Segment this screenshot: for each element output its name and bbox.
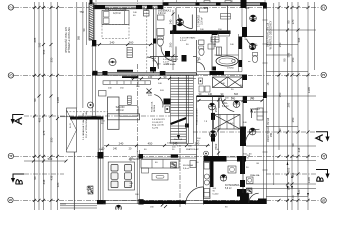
svg-text:2x90: 2x90 (143, 7, 149, 11)
dining west wall window (97, 120, 106, 205)
svg-text:438: 438 (297, 147, 301, 152)
svg-text:503: 503 (234, 93, 239, 96)
upper X-box void (213, 77, 243, 88)
east wall sill ticks (263, 20, 268, 170)
svg-text:h=270: h=270 (152, 127, 159, 129)
grid bubble 2 left (8, 5, 13, 10)
terrace edge (73, 152, 75, 210)
svg-text:PRALNIA: PRALNIA (250, 174, 260, 177)
svg-text:5: 5 (8, 198, 13, 201)
svg-text:120: 120 (245, 6, 250, 10)
corridor east wall (196, 8, 198, 72)
left dimension chain lines (35, 2, 58, 210)
left rotated note text (65, 27, 86, 53)
door living-stairs (152, 95, 165, 108)
hall west line (196, 96, 198, 156)
kitchen beam band (143, 155, 197, 159)
svg-text:260: 260 (169, 42, 173, 47)
shelf strip bedroom1 (127, 48, 132, 58)
svg-text:2,04 m²: 2,04 m² (158, 12, 166, 15)
svg-text:90: 90 (287, 20, 291, 24)
bath fixture on band (212, 32, 230, 37)
svg-text:17x18,2/27: 17x18,2/27 (152, 122, 164, 124)
terrace roof dashed line (66, 111, 108, 113)
svg-text:3: 3 (321, 73, 326, 76)
grid bubble 3 left (8, 73, 13, 78)
section marker B left (11, 174, 24, 184)
svg-text:240: 240 (113, 148, 118, 151)
svg-text:170/60: 170/60 (227, 68, 234, 70)
svg-text:438: 438 (50, 175, 54, 180)
section marker A right (316, 132, 330, 142)
wc room fixtures (252, 53, 257, 63)
grid line 4 (14, 155, 320, 157)
bath partition (173, 8, 176, 31)
grid bubble 2 right (321, 5, 326, 10)
svg-text:90: 90 (278, 128, 282, 132)
svg-text:5.8 WC: 5.8 WC (250, 44, 257, 46)
right dimension chain lines (274, 2, 315, 210)
svg-text:140: 140 (208, 93, 213, 96)
svg-text:205: 205 (291, 172, 295, 177)
vertical reference line (137, 64, 139, 152)
office top pier (243, 97, 247, 104)
svg-text:WIATROŁAP: WIATROŁAP (186, 148, 199, 151)
office arrow (250, 109, 252, 119)
svg-text:450: 450 (148, 142, 153, 146)
svg-text:16x17,8: 16x17,8 (174, 139, 183, 141)
svg-text:5.3 POKÓJ: 5.3 POKÓJ (198, 15, 201, 27)
svg-text:170: 170 (291, 19, 295, 24)
utility boiler (228, 166, 236, 173)
grid bubble 5 left (8, 197, 13, 202)
scattered small dimension texts inside plan (99, 12, 295, 209)
svg-text:PODŁOGA GRES: PODŁOGA GRES (196, 108, 199, 125)
svg-text:4: 4 (8, 154, 13, 157)
svg-text:350: 350 (291, 117, 295, 122)
survey symbol 1 (250, 15, 257, 22)
interior wall bedroom1 east (150, 8, 156, 73)
bath center line (213, 37, 228, 71)
svg-text:1365: 1365 (56, 96, 60, 103)
svg-text:HALL: HALL (222, 102, 228, 105)
entry wall pier (240, 180, 245, 187)
grid line 3 (14, 74, 320, 76)
bath east wall with piers (239, 34, 243, 72)
svg-text:205: 205 (287, 167, 291, 172)
kitchen west wall (196, 156, 198, 187)
west wall upper (hatched) (89, 0, 95, 40)
svg-text:1,9 m²: 1,9 m² (250, 46, 256, 49)
svg-text:SALON: SALON (116, 105, 125, 109)
section line A-A (24, 116, 316, 132)
svg-text:8,2 m²: 8,2 m² (222, 105, 229, 108)
svg-text:W ŚWIETLE OŚCIEŻNICY: W ŚWIETLE OŚCIEŻNICY (270, 20, 273, 49)
svg-text:150: 150 (214, 107, 218, 112)
svg-text:240: 240 (110, 41, 115, 45)
dim row under main wall (131, 75, 196, 80)
svg-text:150: 150 (291, 57, 295, 62)
svg-text:555: 555 (42, 49, 46, 54)
kitchen north dark band L (204, 156, 247, 197)
vertical reference line kitchen (179, 148, 181, 208)
wc partition y36.5 (247, 36, 264, 38)
drain symbol living (146, 89, 152, 94)
top grid stubs (96, 0, 265, 5)
right dimension ticks (278, 6, 310, 202)
wall pier mid stairs (185, 124, 189, 128)
stair void X-box lower (214, 115, 241, 130)
wardrobe (144, 11, 150, 17)
kitchen fridge (190, 161, 196, 168)
svg-text:6,2 m²: 6,2 m² (180, 39, 186, 42)
vertical dim center corridor (169, 10, 175, 70)
terrace windbreak window (67, 108, 77, 152)
svg-text:7,4 m²: 7,4 m² (250, 111, 257, 114)
svg-text:DESKA: DESKA (153, 104, 156, 112)
door corridor (161, 47, 176, 62)
door bedroom1 (147, 57, 158, 69)
utility circled symbol (220, 175, 227, 182)
svg-text:140: 140 (148, 75, 153, 79)
top-right wall x242 with piers (242, 8, 247, 37)
section marker B right (316, 170, 330, 182)
door wc upper (247, 37, 258, 48)
svg-text:10,6 m²: 10,6 m² (201, 17, 204, 25)
bottom wall window part (103, 201, 139, 204)
door entry (249, 193, 259, 203)
svg-text:5.5 SYPIALNIA 1: 5.5 SYPIALNIA 1 (108, 9, 126, 12)
roof knee dashed line bedroom (146, 9, 148, 73)
svg-text:503: 503 (214, 143, 218, 148)
door right room (246, 129, 260, 143)
circled symbol top bath (176, 19, 183, 26)
bathtub (215, 55, 239, 66)
door hall-bath (218, 97, 237, 112)
svg-text:585: 585 (38, 42, 42, 47)
wc top bath fixtures (157, 15, 170, 57)
ceiling symbol bedroom1 (109, 58, 116, 65)
office shelf (257, 108, 263, 120)
stair west pier (164, 99, 171, 113)
door kitchen-terrace (186, 187, 204, 205)
svg-text:255: 255 (270, 132, 273, 137)
terrace hatch drain (88, 186, 93, 194)
svg-text:350: 350 (50, 57, 54, 62)
tv cabinet (99, 91, 107, 97)
wall x212 hall/kitchen (211, 96, 215, 157)
svg-text:90: 90 (283, 58, 287, 62)
svg-text:KOTŁOWNIA: KOTŁOWNIA (225, 184, 240, 187)
top dim numbers (80, 6, 250, 14)
horizontal dim row bedroom (96, 41, 153, 46)
svg-text:285: 285 (287, 102, 291, 107)
kitchen counter left column (204, 151, 211, 198)
svg-text:150: 150 (278, 92, 282, 97)
hall shoe cabinets (199, 86, 210, 92)
svg-text:h=220: h=220 (213, 194, 220, 196)
terrace steps bottom left (60, 204, 97, 209)
svg-text:438: 438 (42, 179, 46, 184)
right dimension numbers (278, 19, 311, 194)
east wall (258, 3, 267, 205)
top wall left segment (93, 3, 164, 9)
door top-right room (179, 15, 193, 29)
svg-text:2: 2 (321, 6, 326, 9)
svg-text:1365: 1365 (307, 176, 311, 183)
svg-text:GABINET: GABINET (250, 108, 261, 111)
svg-text:585: 585 (78, 35, 81, 40)
hall circled symbols (209, 103, 216, 110)
west wall bedroom window (92, 46, 97, 74)
corridor wall y56.5 (150, 55, 197, 62)
svg-text:685: 685 (33, 37, 37, 42)
svg-text:150: 150 (278, 42, 282, 47)
horizontal dim row living y145 (104, 142, 210, 147)
step wall between top segments (162, 3, 164, 8)
sideboard (103, 81, 151, 85)
section marker A left (11, 115, 24, 125)
bed (102, 11, 129, 39)
sofa (108, 96, 140, 129)
svg-text:4: 4 (321, 155, 326, 158)
corridor dark band (170, 31, 231, 35)
bottom wall thick part (138, 199, 265, 204)
laundry machine (247, 177, 254, 184)
west wall pier (92, 40, 96, 46)
grid bubble 5 right (321, 198, 326, 203)
entry drain hatch (247, 188, 253, 194)
utility texts block (213, 188, 220, 196)
grid line 2 (14, 7, 320, 9)
left dimension ticks (33, 6, 59, 202)
section line B-B (24, 173, 316, 175)
hall dim row y94 (199, 93, 239, 96)
svg-text:22,4 m²: 22,4 m² (116, 109, 124, 112)
inner left dimension lines (77, 2, 87, 108)
survey symbol 2 (249, 43, 256, 50)
svg-text:120: 120 (297, 189, 301, 194)
svg-text:1365: 1365 (307, 86, 311, 93)
kitchen island (152, 174, 168, 181)
door size labels 204/90 (87, 58, 251, 191)
wc mid fixtures (197, 40, 205, 70)
bottom ticks (161, 204, 167, 209)
svg-text:5: 5 (321, 199, 326, 202)
svg-text:750: 750 (80, 10, 85, 14)
svg-text:30,2 m² PODŁOGA DESKA: 30,2 m² PODŁOGA DESKA (85, 111, 88, 138)
hall north black bar (197, 71, 248, 80)
living circled symbol (88, 102, 94, 108)
svg-text:240: 240 (119, 142, 124, 146)
dining table (108, 162, 134, 190)
west wall living window (92, 74, 97, 117)
radiator bath (217, 47, 222, 56)
dining east wall (137, 150, 143, 204)
svg-text:5.6 SCHODY: 5.6 SCHODY (152, 119, 166, 121)
bath west wall (211, 34, 213, 71)
svg-text:90: 90 (33, 98, 37, 102)
svg-text:140: 140 (169, 19, 173, 24)
svg-text:VII: VII (293, 195, 295, 198)
svg-text:12,8 m²: 12,8 m² (113, 12, 121, 15)
svg-text:375: 375 (42, 130, 46, 135)
svg-text:595: 595 (297, 37, 301, 42)
svg-text:2: 2 (8, 6, 13, 9)
top-right partition x227.5 (227, 6, 229, 31)
top-right room furniture (200, 8, 231, 19)
svg-text:bieg szer.90: bieg szer.90 (152, 124, 165, 127)
hall small cabinet (199, 78, 203, 84)
svg-text:503: 503 (48, 157, 53, 161)
vertical dim kitchen (214, 98, 220, 156)
office circled symbol (249, 128, 256, 135)
bottom edge circled symbol (116, 205, 122, 211)
small box room2 (208, 37, 219, 49)
svg-text:405: 405 (38, 117, 42, 122)
left dimension numbers (33, 37, 60, 187)
svg-text:170: 170 (204, 6, 209, 10)
horizontal dim terrace (32, 157, 68, 163)
svg-text:OKNO POŁAC. 78/118: OKNO POŁAC. 78/118 (267, 117, 270, 142)
extension lines right (246, 30, 316, 197)
grid bubble 4 left (8, 153, 13, 158)
svg-text:5.1 JADALNIA Z SALONEM: 5.1 JADALNIA Z SALONEM (82, 113, 85, 140)
svg-text:5,6 m²: 5,6 m² (225, 187, 232, 190)
svg-text:350: 350 (50, 137, 54, 142)
dim row dining top (102, 148, 132, 151)
svg-text:360: 360 (129, 41, 134, 45)
right rotated note text (267, 20, 274, 142)
svg-text:9,6 m²: 9,6 m² (183, 167, 189, 170)
grid bubble 3 right (321, 72, 326, 77)
main wall y73.8 (93, 70, 197, 78)
svg-text:W ŚWIETLE ODTŁUMA: W ŚWIETLE ODTŁUMA (68, 27, 71, 53)
terrace corner wall jog (70, 117, 104, 120)
horizontal dim hall y100 (197, 97, 264, 102)
grid line 5 (14, 199, 320, 201)
svg-text:ŁAZIENKA 2: ŁAZIENKA 2 (158, 10, 172, 13)
extension lines left (24, 117, 70, 204)
svg-text:2,5x3: 2,5x3 (228, 123, 234, 125)
top wall right segment (163, 0, 266, 8)
kitchen counter top row (141, 160, 179, 174)
svg-text:KUCHNIA: KUCHNIA (183, 164, 193, 167)
svg-text:3: 3 (8, 74, 13, 77)
grid bubble 4 right (321, 154, 326, 159)
hall wall y96 (197, 95, 264, 97)
lower right wall x243 (240, 96, 249, 204)
svg-text:90: 90 (33, 176, 37, 180)
svg-text:120: 120 (56, 182, 60, 187)
